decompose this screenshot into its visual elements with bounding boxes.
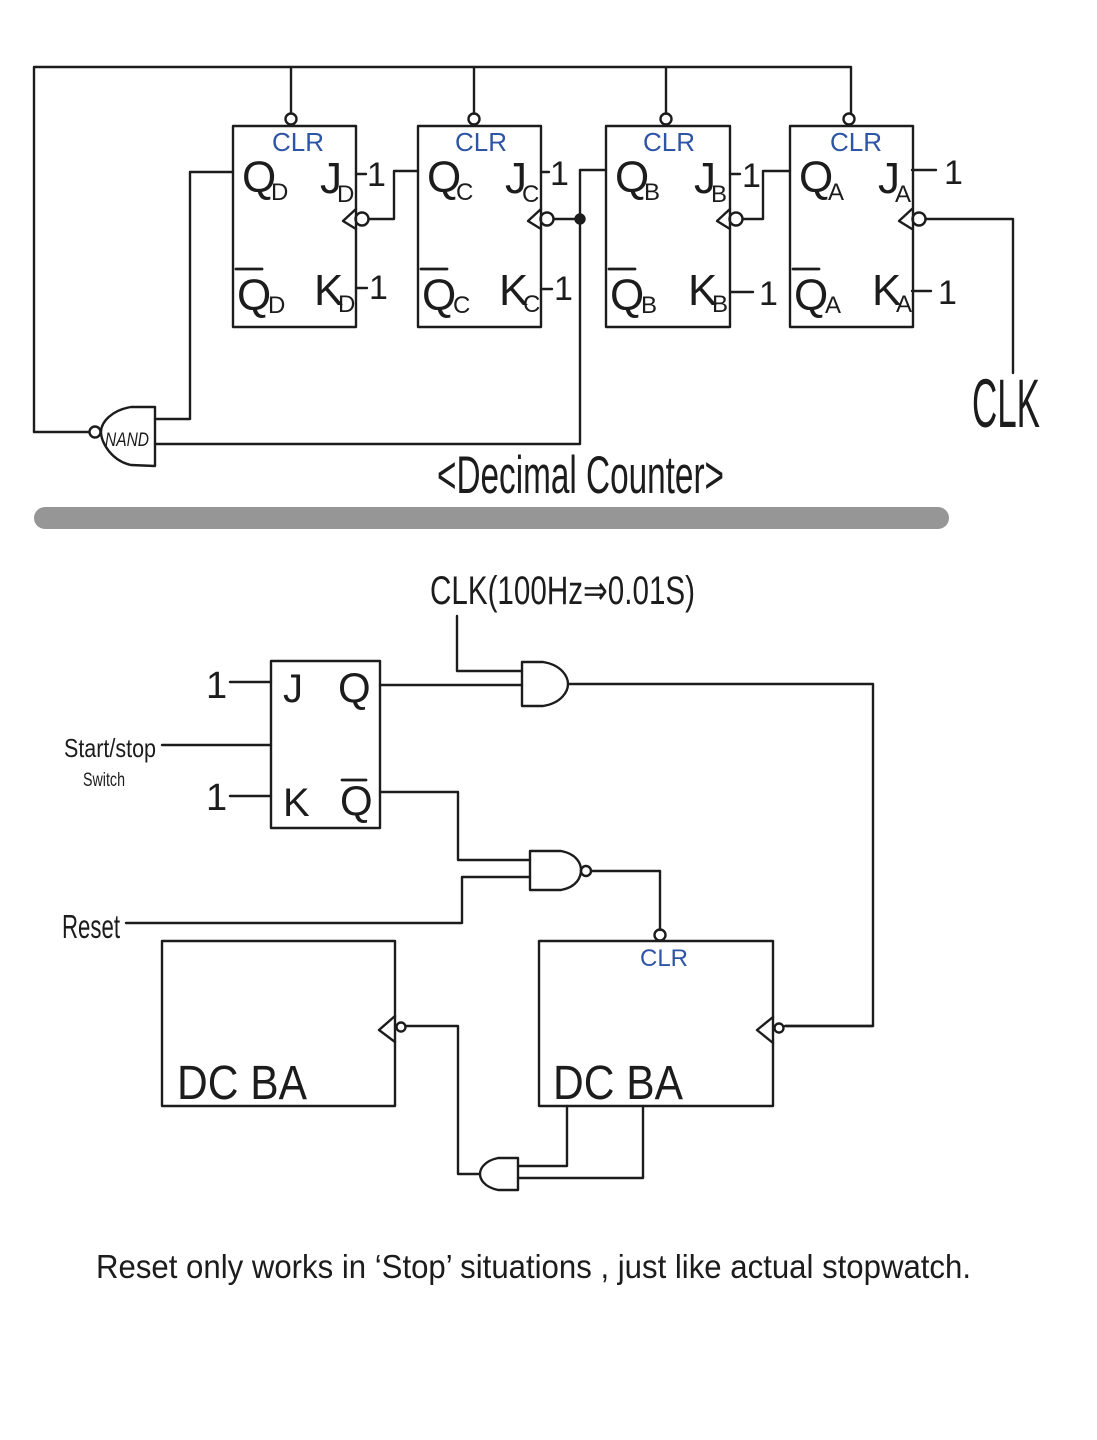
flip-flop FF-A [790,126,926,327]
wire FF-C clock from Q_B [554,170,606,219]
svg-text:1: 1 [367,156,386,194]
wire FF-D clock from Q_C [369,171,418,219]
svg-text:1: 1 [759,275,778,313]
flip-flop start/stop [271,661,380,828]
svg-text:CLR: CLR [830,127,882,157]
svg-text:CLK(100Hz⇒0.01S): CLK(100Hz⇒0.01S) [430,569,695,613]
note text [96,1248,971,1285]
pin K_B tie-high [730,275,778,313]
pin K_C tie-high [541,270,573,308]
svg-text:<Decimal Counter>: <Decimal Counter> [437,446,724,505]
svg-text:D: D [271,179,288,206]
svg-text:B: B [712,291,728,318]
svg-text:DC BA: DC BA [553,1057,683,1110]
wire Qbar to NAND2 [380,792,530,860]
pin J tie-high [206,665,271,707]
svg-text:1: 1 [550,155,569,193]
svg-text:D: D [338,291,355,318]
svg-text:1: 1 [206,777,227,819]
svg-text:C: C [453,292,470,319]
svg-text:B: B [644,179,660,206]
svg-text:D: D [268,292,285,319]
wire AND4 output to counter1 clock [406,1026,479,1174]
CLR bubble FF-D [286,114,297,125]
svg-text:Q: Q [794,271,828,320]
wire FF-A clock from CLK [926,219,1013,373]
wire Q_B junction down to NAND input [155,219,580,444]
svg-text:Reset: Reset [62,908,120,945]
wire FF-B clock from Q_A [743,171,790,219]
svg-text:Q: Q [422,271,456,320]
flip-flop FF-D [233,126,369,327]
svg-text:Q: Q [237,271,271,320]
wire CLK to AND gate [457,616,522,671]
pin J_D tie-high [356,156,386,194]
wire counter2 clock [785,1025,873,1027]
label CLK [972,366,1040,443]
svg-text:Q: Q [340,777,373,824]
svg-text:Q: Q [338,664,371,711]
svg-text:1: 1 [554,270,573,308]
svg-text:C: C [456,179,473,206]
pin K_A tie-high [912,274,957,312]
svg-text:J: J [283,667,303,711]
label Reset [62,908,120,945]
svg-text:A: A [895,181,911,208]
wire NAND output to CLR bus [34,431,89,433]
divider bar [34,507,949,529]
pin K tie-high [206,777,271,819]
label CLK 100Hz [430,569,695,613]
svg-text:C: C [522,181,539,208]
svg-text:CLR: CLR [455,127,507,157]
svg-text:CLR: CLR [272,127,324,157]
svg-text:Reset only works in ‘Stop’ sit: Reset only works in ‘Stop’ situations , … [96,1248,971,1285]
pin J_B tie-high [730,157,761,195]
svg-text:A: A [828,179,844,206]
pin J_A tie-high [912,154,963,192]
wire Q to AND [380,684,522,686]
AND gate U4 [480,1158,518,1190]
svg-text:A: A [825,292,841,319]
wire B to AND4 [518,1106,643,1178]
CLR bubble counter2 [655,930,666,941]
wire Q_D to NAND input [155,172,233,419]
wire AND output to FF clock [568,684,873,1026]
svg-text:B: B [641,292,657,319]
pin K_D tie-high [356,269,388,307]
svg-text:1: 1 [938,274,957,312]
counter box tens [162,941,406,1110]
CLR bubble FF-B [661,114,672,125]
svg-text:A: A [896,291,912,318]
svg-text:1: 1 [369,269,388,307]
counter box seconds [539,941,784,1110]
NAND gate U3 [530,851,591,890]
wire start/stop input [162,744,271,746]
label Decimal Counter [437,446,724,505]
svg-text:Start/stop: Start/stop [64,733,156,763]
NAND gate U1 [90,407,156,466]
svg-text:DC BA: DC BA [177,1057,307,1110]
svg-text:D: D [337,181,354,208]
svg-text:NAND: NAND [105,430,149,451]
CLR bubble FF-C [469,114,480,125]
wire Reset to NAND2 [126,877,530,923]
svg-text:CLR: CLR [643,127,695,157]
svg-text:B: B [711,181,727,208]
svg-text:K: K [283,781,310,825]
svg-text:C: C [523,291,540,318]
svg-text:Q: Q [610,271,644,320]
svg-text:1: 1 [944,154,963,192]
CLR bubble FF-A [844,114,855,125]
label Start/stop switch [64,733,156,791]
wire CLR top bus [34,67,851,432]
pin J_C tie-high [541,155,569,193]
svg-text:1: 1 [206,665,227,707]
svg-text:CLK: CLK [972,366,1040,443]
svg-text:CLR: CLR [640,945,688,972]
wire D to AND4 [518,1106,567,1166]
wire NAND2 output to CLR [591,871,660,930]
AND gate U2 [522,662,568,706]
flip-flop FF-B [606,126,743,327]
flip-flop FF-C [418,126,554,327]
svg-text:Switch: Switch [83,770,125,791]
node junction Q_B [576,215,585,224]
svg-text:1: 1 [742,157,761,195]
